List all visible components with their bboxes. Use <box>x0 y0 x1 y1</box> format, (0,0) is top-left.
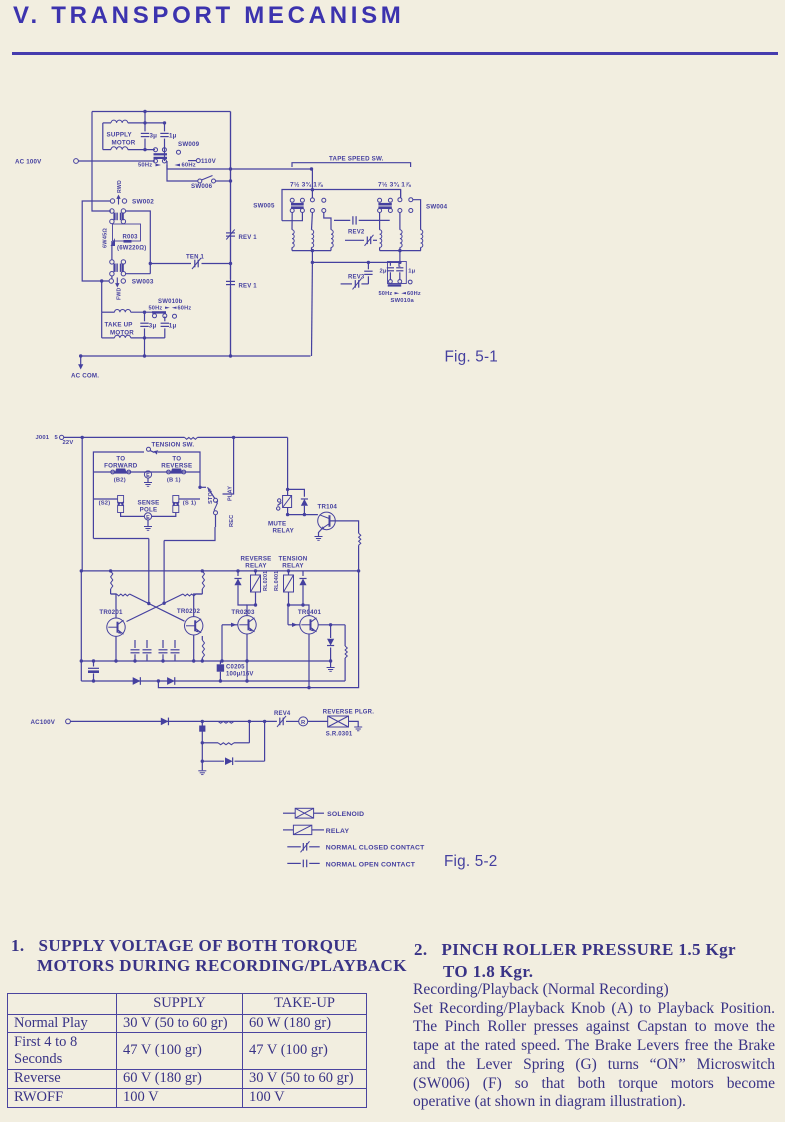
capacitor 2u <box>389 262 391 266</box>
svg-text:REVERSE: REVERSE <box>241 555 272 562</box>
wire left rail fig5-1 <box>92 112 111 212</box>
svg-text:REV2: REV2 <box>348 229 365 235</box>
diode AC branch3 <box>202 760 224 762</box>
wire cross-coupling to TR0201 base <box>127 594 184 622</box>
svg-text:110V: 110V <box>201 158 217 165</box>
svg-text:TR0201: TR0201 <box>99 609 123 616</box>
wire PLAY to right rail <box>223 437 234 494</box>
switch SW004 feed <box>400 190 402 198</box>
ground busB right end <box>330 661 332 667</box>
svg-text:TENSION SW.: TENSION SW. <box>152 441 195 448</box>
svg-text:NORMAL CLOSED CONTACT: NORMAL CLOSED CONTACT <box>326 845 425 852</box>
wire TR0203 base arrow <box>222 624 238 626</box>
capacitor 1u supply <box>160 132 168 134</box>
resistor AC branch1 <box>218 721 234 723</box>
switch SW004 wiper bars <box>378 203 391 206</box>
transformer T1 upper winding <box>110 209 114 213</box>
svg-text:REV3: REV3 <box>348 275 365 281</box>
wire bottom rail fig5-1 / AC COM bus <box>81 355 311 357</box>
svg-text:SW003: SW003 <box>132 279 154 286</box>
svg-text:SW009: SW009 <box>178 141 200 148</box>
wire solenoid to ground <box>349 721 359 726</box>
relay RL0201 <box>255 571 257 575</box>
svg-text:TR104: TR104 <box>318 503 338 510</box>
svg-text:(S2): (S2) <box>99 501 111 507</box>
resistor base coupling right <box>196 593 202 595</box>
resistor collector TR0202 <box>202 571 204 589</box>
node E upper <box>144 471 151 478</box>
switch SW006 <box>167 165 198 181</box>
wire SW004 right bracket <box>413 200 421 230</box>
capacitor C0205 <box>217 664 224 671</box>
svg-text:J001: J001 <box>36 435 50 441</box>
capacitor AC blob <box>199 726 205 732</box>
svg-text:7½ 3¾ 1⅞: 7½ 3¾ 1⅞ <box>290 181 323 189</box>
svg-text:(S 1): (S 1) <box>183 501 197 507</box>
svg-text:REVERSE PLGR.: REVERSE PLGR. <box>323 710 374 716</box>
svg-text:(6W220Ω): (6W220Ω) <box>117 246 146 252</box>
diode D busC mid <box>167 677 175 685</box>
legend solenoid symbol <box>283 812 295 814</box>
svg-text:1μ: 1μ <box>408 268 415 274</box>
wire left rail lower <box>80 571 82 681</box>
capacitor 1u sw010a <box>399 265 401 268</box>
svg-text:3μ: 3μ <box>150 133 158 140</box>
wire S2 S1 to E lower <box>93 498 117 500</box>
diode D TR0401 <box>330 625 332 638</box>
svg-text:MOTOR: MOTOR <box>112 139 136 146</box>
contact B2 <box>115 469 128 474</box>
svg-text:TAPE SPEED SW.: TAPE SPEED SW. <box>329 155 384 162</box>
svg-text:R003: R003 <box>123 235 139 241</box>
svg-text:RL0401: RL0401 <box>274 571 280 591</box>
wire right rail down <box>158 545 358 687</box>
svg-text:RELAY: RELAY <box>282 563 304 570</box>
variable resistor arm R003 <box>111 238 116 246</box>
svg-text:AC COM.: AC COM. <box>71 373 99 380</box>
svg-text:RELAY: RELAY <box>273 528 295 535</box>
wire sense outputs down <box>148 539 150 604</box>
ground AC branch <box>198 770 206 772</box>
capacitor electrolytic left rail <box>93 661 95 667</box>
svg-text:1μ: 1μ <box>169 133 177 140</box>
svg-text:TR0203: TR0203 <box>231 609 255 616</box>
wire tape-speed bracket <box>292 163 411 167</box>
title rule <box>12 52 778 55</box>
svg-text:R: R <box>301 720 306 726</box>
table <box>7 993 367 1108</box>
switch SW005 contacts <box>290 198 294 202</box>
supply motor M1 box <box>144 112 146 123</box>
coil L1 SW005 <box>291 213 293 230</box>
diode D busC left <box>133 677 141 685</box>
wire AC branch verticals <box>201 721 203 770</box>
wire TR0201 collector <box>111 594 116 618</box>
transformer T2 lower winding <box>111 241 113 260</box>
ground under E upper <box>147 478 149 482</box>
svg-text:AC100V: AC100V <box>31 719 56 726</box>
wire TR0202 collector <box>194 594 203 617</box>
contact B1 <box>170 469 183 474</box>
wire take-up box top-left up to SW003 row <box>101 281 103 312</box>
svg-text:SW010b: SW010b <box>158 299 183 305</box>
ground under E lower <box>147 520 149 526</box>
svg-text:C0205: C0205 <box>226 665 245 671</box>
contact REV1 lower <box>226 280 235 282</box>
contact S1 <box>173 496 179 503</box>
diode D mute <box>288 489 305 496</box>
svg-text:RELAY: RELAY <box>245 563 267 570</box>
svg-text:TR0202: TR0202 <box>177 608 201 615</box>
contact REV3 slash <box>341 283 352 285</box>
svg-text:RL0201: RL0201 <box>263 571 269 591</box>
svg-text:50Hz: 50Hz <box>138 162 152 168</box>
wire busB <box>81 660 330 662</box>
switch SW010a contacts <box>388 284 402 286</box>
svg-text:REV 1: REV 1 <box>239 235 258 241</box>
diode D AC <box>161 718 169 726</box>
svg-text:(B 1): (B 1) <box>167 477 181 483</box>
section 2 heading <box>414 940 736 960</box>
junction column <box>201 720 204 723</box>
wire top bus right part <box>198 436 288 438</box>
svg-text:60Hz: 60Hz <box>407 291 421 297</box>
coil L5 SW004 <box>399 213 401 230</box>
wire TR0401 emitter to busD <box>308 634 310 688</box>
svg-text:MOTOR: MOTOR <box>110 329 134 336</box>
coil L3 SW005 <box>324 213 331 230</box>
resistor base coupling left <box>111 593 117 595</box>
switch SW005 wiper bars <box>291 203 304 206</box>
wire SW002 left to SW003 <box>82 201 110 281</box>
relay MUTE RELAY RL0103 <box>287 437 289 495</box>
svg-text:S.R.0301: S.R.0301 <box>326 732 353 738</box>
resistor AC branch2 <box>202 742 218 744</box>
terminal 110V <box>196 159 200 163</box>
wire feed to SW005 <box>311 169 314 198</box>
svg-text:REV 1: REV 1 <box>239 283 258 289</box>
AC COM terminal arrow <box>80 356 82 366</box>
resistor collector TR0201 <box>111 571 113 589</box>
section 2 body <box>413 981 775 1112</box>
coil L6 SW004 <box>421 230 423 248</box>
legend relay symbol <box>283 829 293 831</box>
svg-text:TENSION: TENSION <box>279 555 308 562</box>
svg-text:60Hz: 60Hz <box>182 162 196 168</box>
svg-text:SW004: SW004 <box>426 203 448 210</box>
legend normal open contact <box>287 862 301 864</box>
sense-pole block box <box>93 452 144 539</box>
svg-text:MUTE: MUTE <box>268 520 286 527</box>
wire take-up bottom to AC COM rail <box>144 338 146 356</box>
wire selector to tape-speed feed <box>167 161 312 169</box>
node R circle <box>299 717 308 726</box>
switch SW004 contacts <box>378 198 382 202</box>
svg-text:TO: TO <box>116 456 125 463</box>
capacitor base C4 <box>174 640 176 648</box>
svg-text:RELAY: RELAY <box>326 828 350 835</box>
take-up motor M2 box <box>101 312 103 338</box>
capacitor base C1 <box>134 640 136 648</box>
wire sense block bottom <box>93 538 148 540</box>
resistor right branch <box>344 625 346 646</box>
capacitor base C2 <box>146 640 148 648</box>
wire top bus fig5-2 <box>64 436 185 438</box>
svg-text:SW002: SW002 <box>132 198 154 205</box>
relay RL0401 <box>288 571 290 575</box>
svg-text:RWD: RWD <box>117 180 123 193</box>
svg-text:AC 100V: AC 100V <box>15 159 42 166</box>
contact REV2 slash <box>345 239 364 241</box>
contact S2 <box>118 496 124 503</box>
wire REC down <box>215 515 217 527</box>
wire SW004 coil bus <box>380 250 421 252</box>
capacitor 3u supply <box>144 123 146 131</box>
resistor R003 box <box>113 224 141 241</box>
svg-text:50Hz: 50Hz <box>379 291 393 297</box>
svg-text:SW005: SW005 <box>253 202 275 209</box>
wire AC feed <box>70 720 277 722</box>
wire right rail fig5-1 <box>230 112 232 357</box>
wire T1 to right rail <box>126 211 151 274</box>
capacitor base C3 <box>162 640 164 648</box>
wire T2 right to rail <box>126 273 151 275</box>
coil L4 SW004 <box>379 213 381 230</box>
wire TR104 collector to right rail <box>330 521 359 533</box>
svg-text:TEN 1: TEN 1 <box>186 255 204 261</box>
switch SW003 <box>111 276 113 279</box>
svg-text:REV4: REV4 <box>274 711 291 717</box>
svg-text:3μ: 3μ <box>149 322 157 329</box>
coil L2 SW005 <box>311 213 314 230</box>
wire TR0201 emitter <box>115 636 117 661</box>
diode D tension relay <box>302 571 304 576</box>
wire AC100V feed <box>78 160 155 162</box>
page title <box>13 2 405 30</box>
wire TR0203 emitter <box>246 634 248 681</box>
svg-text:100μ/16V: 100μ/16V <box>226 672 254 678</box>
wire TR0401 collector right <box>318 624 345 626</box>
wire TR104 emitter to ground <box>319 529 323 536</box>
capacitor 1u take-up <box>164 317 166 322</box>
capacitor 3u take-up <box>144 312 146 321</box>
switch SW005 box <box>282 190 401 221</box>
resistor emitter TR0202 <box>202 640 204 658</box>
svg-text:SUPPLY: SUPPLY <box>107 131 133 138</box>
svg-text:NORMAL OPEN CONTACT: NORMAL OPEN CONTACT <box>326 861 416 868</box>
svg-text:60Hz: 60Hz <box>178 305 192 311</box>
wire B-row <box>93 471 200 473</box>
wire mute relay bottom <box>288 508 318 515</box>
diode D reverse relay <box>237 571 239 576</box>
contact REV3 capacitor <box>367 262 369 269</box>
section 1 heading <box>11 936 358 956</box>
contact REV1 upper <box>230 112 232 231</box>
svg-text:TO: TO <box>172 456 181 463</box>
node E lower <box>144 513 151 520</box>
svg-text:SENSE: SENSE <box>138 499 160 506</box>
wire busA <box>81 570 358 572</box>
svg-text:SW010a: SW010a <box>391 298 415 304</box>
wire cross-coupling to TR0202 base <box>130 594 185 621</box>
svg-text:5: 5 <box>55 435 59 441</box>
svg-text:22V: 22V <box>63 440 74 446</box>
svg-text:SOLENOID: SOLENOID <box>327 811 364 818</box>
svg-text:FWD: FWD <box>116 288 122 300</box>
wire SW005 coil bus <box>292 250 331 252</box>
resistor on top bus <box>185 437 198 439</box>
svg-text:6W45Ω: 6W45Ω <box>103 228 109 248</box>
wire coil bus to SW004 side <box>312 261 400 263</box>
svg-text:50Hz: 50Hz <box>149 305 163 311</box>
switch SW002 <box>110 199 114 203</box>
wire R to solenoid <box>308 720 328 722</box>
svg-text:(B2): (B2) <box>114 477 126 483</box>
svg-text:Fig. 5-2: Fig. 5-2 <box>444 853 497 870</box>
wire TR0202 emitter <box>193 635 195 661</box>
svg-text:1μ: 1μ <box>169 322 177 329</box>
legend normal closed contact <box>287 846 301 848</box>
wire TR0401 base <box>288 624 300 626</box>
wire left rail fig5-2 <box>81 437 83 571</box>
contact REV2 <box>334 219 350 221</box>
svg-text:Fig. 5-1: Fig. 5-1 <box>445 349 498 366</box>
svg-text:PLAY: PLAY <box>228 486 234 501</box>
switch SW010a box <box>398 262 400 266</box>
svg-text:2μ: 2μ <box>380 268 387 274</box>
svg-text:TAKE UP: TAKE UP <box>105 322 133 329</box>
svg-text:7½ 3¾ 1⅞: 7½ 3¾ 1⅞ <box>378 181 411 189</box>
wire coil bus to bottom rail <box>311 262 314 356</box>
wire top rail fig5-1 <box>92 111 231 113</box>
resistor right rail <box>359 533 361 545</box>
svg-text:SW006: SW006 <box>191 183 213 190</box>
svg-text:REC: REC <box>229 515 235 527</box>
contact TEN1 <box>150 263 191 265</box>
wire busC <box>81 680 345 682</box>
